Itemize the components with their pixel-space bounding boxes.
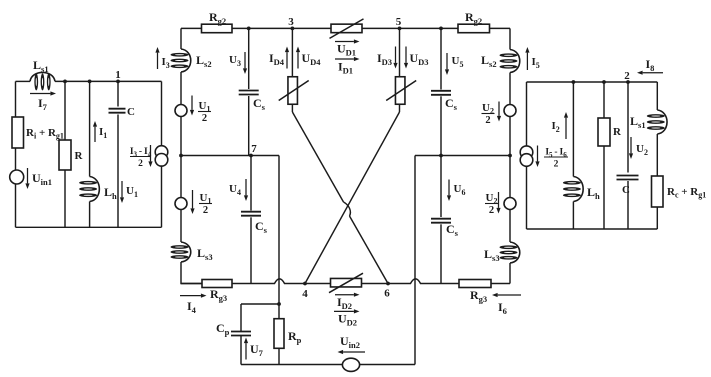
svg-text:2: 2: [202, 113, 207, 124]
wire: [603, 146, 605, 229]
svg-text:7: 7: [251, 143, 257, 155]
svg-text:1: 1: [115, 69, 121, 81]
current arrow I4: [180, 294, 207, 316]
junction: [63, 80, 67, 84]
wire: [362, 283, 411, 285]
inductor Ls1: [30, 58, 55, 90]
source U1/2 lower: [175, 190, 212, 216]
wire: [181, 283, 202, 285]
varistor D4: [279, 77, 309, 105]
varistor D1: [330, 19, 364, 39]
wire: [440, 28, 442, 89]
wire: [509, 117, 511, 198]
inductor Lh right: [563, 177, 600, 202]
wire: [490, 27, 511, 29]
wire: [362, 27, 458, 29]
wire: [572, 202, 574, 230]
wire: [509, 210, 511, 243]
wire: [278, 304, 280, 319]
node 5: [396, 16, 402, 30]
wire: [291, 28, 293, 76]
varistor D3: [386, 77, 416, 105]
source U2/2 upper: [482, 102, 517, 127]
wire: [284, 283, 330, 285]
wire: [240, 336, 242, 365]
wire: [627, 82, 629, 173]
source Uin1: [10, 168, 52, 189]
current arrow I2: [552, 112, 569, 139]
resistor Rg3: [202, 280, 232, 304]
resistor R: [59, 140, 84, 170]
wire: [241, 303, 279, 305]
wire: [241, 364, 343, 366]
wire: [440, 96, 442, 155]
wire: [278, 348, 280, 364]
voltage arrow UD1: [335, 39, 360, 57]
junction: [247, 27, 251, 31]
wire: [399, 28, 401, 76]
wire: [509, 28, 511, 49]
wire: [15, 148, 17, 170]
wire: [440, 156, 442, 218]
inductor Ls1 right: [630, 110, 667, 134]
wire: [572, 82, 574, 177]
svg-text:2: 2: [203, 205, 208, 216]
wire: [526, 82, 528, 146]
wire: [527, 228, 658, 230]
junction: [439, 27, 443, 31]
inductor Ls3 right: [484, 242, 520, 263]
capacitor Cs upper-right: [431, 91, 458, 112]
wire hop: [275, 279, 285, 284]
wire: [180, 117, 182, 198]
wire: [180, 210, 182, 243]
wire: [16, 80, 31, 82]
wire: [161, 166, 163, 227]
wire: [527, 81, 658, 83]
wire: [89, 202, 91, 228]
svg-text:2: 2: [138, 159, 143, 169]
wire: [360, 364, 415, 366]
wire: [627, 181, 629, 229]
voltage arrow U2: [629, 137, 648, 159]
svg-text:2: 2: [489, 205, 494, 216]
svg-text:R: R: [613, 126, 622, 138]
capacitor Cs lower-right: [431, 219, 459, 239]
wire: [64, 170, 66, 227]
wire: [414, 156, 416, 365]
wire diagonal D3 to node 4: [305, 112, 400, 284]
current arrow ID2: [335, 293, 360, 312]
wire: [250, 217, 252, 283]
current arrow ID3: [377, 47, 398, 69]
wire: [440, 224, 442, 283]
source Uin2: [338, 334, 366, 371]
source U1/2: [175, 96, 211, 125]
resistor Rc+Rg1: [652, 176, 707, 207]
svg-text:6: 6: [384, 288, 390, 300]
varistor D2: [329, 273, 363, 293]
svg-text:2: 2: [485, 115, 490, 126]
voltage arrow UD3: [404, 47, 429, 69]
junction: [572, 80, 576, 84]
svg-text:5: 5: [396, 16, 402, 28]
wire: [15, 81, 17, 117]
svg-text:2: 2: [554, 160, 559, 170]
node 7: [249, 143, 257, 157]
current arrow I8: [637, 57, 663, 75]
inductor Ls2: [171, 49, 212, 72]
current arrow ID4: [269, 47, 289, 69]
wire: [15, 184, 17, 227]
voltage arrow U5: [445, 53, 464, 75]
voltage arrow U7: [244, 338, 264, 360]
current source (I5-I6)/2: [520, 146, 568, 170]
current arrow I3: [155, 47, 169, 70]
svg-text:4: 4: [302, 288, 308, 300]
voltage arrow U4: [229, 179, 248, 201]
inductor Lh: [79, 177, 117, 202]
wire: [181, 27, 202, 29]
wire: [181, 155, 279, 157]
resistor Rg2 right: [458, 10, 490, 33]
node 2: [624, 70, 630, 84]
wire hop: [411, 279, 421, 284]
svg-text:3: 3: [288, 16, 294, 28]
voltage arrow U3: [229, 52, 247, 74]
voltage arrow UD2: [334, 309, 360, 327]
current arrow I7: [30, 91, 56, 112]
node 4: [302, 282, 308, 300]
capacitor C: [109, 106, 136, 118]
current arrow I1: [93, 121, 107, 142]
wire: [248, 96, 250, 156]
inductor Ls2 right: [481, 50, 520, 73]
wire: [248, 28, 250, 89]
voltage arrow UD4: [296, 47, 321, 69]
wire: [656, 82, 658, 110]
wire diagonal D4 to node 6: [292, 112, 388, 284]
capacitor Cs: [239, 91, 266, 113]
svg-text:2: 2: [624, 70, 630, 82]
wire: [656, 134, 658, 176]
node 1: [115, 69, 121, 83]
wire: [181, 262, 202, 284]
wire: [232, 27, 331, 29]
wire: [117, 81, 119, 106]
wire: [232, 283, 275, 285]
resistor R right: [598, 118, 622, 146]
current source (I3-I4)/2: [130, 145, 168, 169]
wire: [509, 263, 511, 284]
wire: [55, 80, 162, 82]
resistor Ri+Rg1: [12, 117, 64, 148]
wire: [64, 81, 66, 140]
voltage arrow U1: [120, 181, 138, 203]
svg-text:R: R: [75, 150, 84, 162]
capacitor Cs lower-left: [241, 212, 268, 236]
wire: [603, 82, 605, 118]
wire: [526, 166, 528, 229]
junction: [179, 154, 183, 158]
node 3: [288, 16, 294, 30]
wire: [509, 73, 511, 105]
node 6: [384, 282, 390, 300]
wire: [117, 115, 119, 228]
wire: [415, 155, 510, 157]
wire: [420, 283, 459, 285]
wire: [16, 226, 162, 228]
resistor Rg2: [202, 10, 233, 33]
wire: [180, 72, 182, 105]
wire: [89, 81, 91, 176]
wire: [491, 283, 510, 285]
source U2/2 lower: [485, 192, 516, 216]
wire: [240, 304, 242, 331]
current arrow I6: [492, 293, 521, 316]
junction: [277, 302, 281, 306]
capacitor C right: [617, 176, 639, 197]
wire: [291, 104, 293, 112]
resistor Rg3 right: [459, 280, 491, 305]
junction: [88, 80, 92, 84]
wire: [278, 156, 280, 305]
svg-text:C: C: [622, 184, 630, 196]
voltage arrow U6: [447, 180, 466, 202]
wire: [180, 28, 182, 49]
junction: [508, 154, 512, 158]
resistor Rp: [274, 319, 302, 349]
wire: [250, 156, 252, 211]
wire: [161, 81, 163, 146]
inductor Ls3: [171, 242, 213, 262]
capacitor Cp: [216, 321, 251, 337]
wire: [656, 207, 658, 229]
svg-text:C: C: [127, 106, 135, 118]
junction: [602, 80, 606, 84]
wire: [399, 104, 401, 112]
junction: [439, 154, 443, 158]
current arrow ID1: [335, 57, 360, 76]
current arrow I5: [525, 47, 539, 70]
